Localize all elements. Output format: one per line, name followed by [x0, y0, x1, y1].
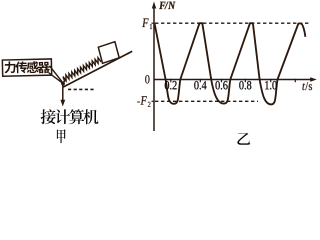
tick labels	[165, 81, 277, 90]
axis label F/N	[159, 2, 175, 10]
label 乙	[237, 133, 250, 145]
label 甲	[57, 129, 66, 143]
axis ticks	[152, 23, 296, 101]
force-time curve	[155, 23, 306, 104]
label text 力传感器	[5, 61, 50, 73]
block on incline	[98, 42, 119, 64]
force sensor label box	[2, 59, 51, 76]
horizontal reference dashed line	[68, 88, 94, 90]
origin 0	[145, 75, 149, 83]
-F2 dashed level line	[155, 100, 258, 102]
axis label t/s	[302, 82, 312, 90]
wire arrow to computer	[60, 84, 65, 107]
text 接计算机	[41, 109, 99, 124]
label -F2	[137, 96, 150, 107]
callout pointer to sensor	[49, 66, 63, 84]
F1 dashed level line	[155, 22, 309, 24]
sensor node	[61, 82, 65, 86]
x-axis t	[154, 77, 317, 81]
label F1	[142, 19, 152, 30]
spring	[63, 58, 101, 82]
incline surface	[63, 51, 132, 87]
y-axis F/N	[152, 2, 156, 132]
